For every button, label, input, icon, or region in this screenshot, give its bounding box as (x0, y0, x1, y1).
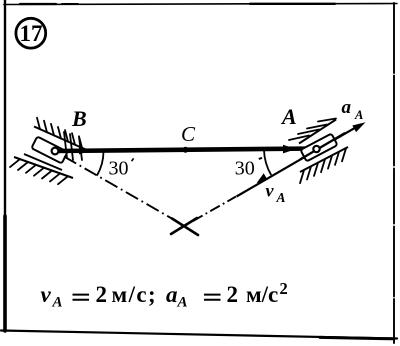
svg-text:B: B (71, 106, 87, 131)
svg-text:A: A (280, 104, 297, 129)
svg-text:v: v (41, 282, 52, 307)
bar BA (56, 149, 316, 152)
svg-text:C: C (181, 122, 196, 146)
slider B (block in left guide) (31, 136, 67, 163)
hatching above right upper rail (289, 119, 336, 141)
svg-text:30: 30 (109, 158, 129, 180)
hatching below left ground edge (10, 159, 68, 184)
slider A (block in right guide) (300, 134, 337, 162)
angle arc 30 at left (97, 152, 104, 176)
hatching below right lower rail (300, 148, 346, 183)
crossing X mark (171, 218, 198, 235)
vector vA arrowhead (257, 173, 268, 183)
svg-text:30: 30 (235, 158, 255, 180)
left axis dash-dot (B to crossing) (64, 157, 177, 222)
svg-text:a: a (342, 97, 352, 118)
pin joint B (52, 148, 59, 155)
svg-text:2: 2 (280, 279, 288, 298)
svg-text:м/с: м/с (246, 282, 278, 307)
arrowhead on bar near A (283, 145, 296, 154)
problem number 17 circle (16, 18, 46, 48)
pin joint A (313, 146, 319, 152)
svg-text:v: v (266, 181, 275, 201)
svg-text:A: A (354, 108, 363, 122)
angle arc 30 at right (264, 150, 271, 175)
svg-text:A: A (52, 295, 63, 311)
svg-text:17: 17 (20, 21, 43, 46)
left guide lower rail (24, 154, 62, 170)
given values formula (41, 279, 288, 311)
right axis dash-dot (crossing to vA line) (193, 197, 236, 222)
hatching above left upper rail (37, 118, 82, 148)
long hatch strokes crossing slider and bar at B (64, 132, 82, 160)
vector aA arrowhead (352, 122, 365, 132)
svg-text:2: 2 (227, 282, 239, 307)
svg-text:A: A (177, 295, 188, 311)
redraw shaft over slider A (300, 133, 345, 160)
left guide ground edge (14, 157, 73, 178)
svg-text:A: A (276, 190, 286, 205)
right guide lower rail (300, 147, 348, 172)
right guide upper rail (299, 120, 336, 144)
svg-text:2: 2 (96, 282, 108, 307)
vA / aA shaft along right guide axis (237, 126, 360, 197)
svg-text:a: a (166, 282, 178, 307)
svg-text:м/с;: м/с; (112, 282, 158, 307)
point C (183, 147, 189, 153)
small arrowhead on bar near B (79, 147, 90, 154)
left guide upper rail (34, 127, 88, 151)
